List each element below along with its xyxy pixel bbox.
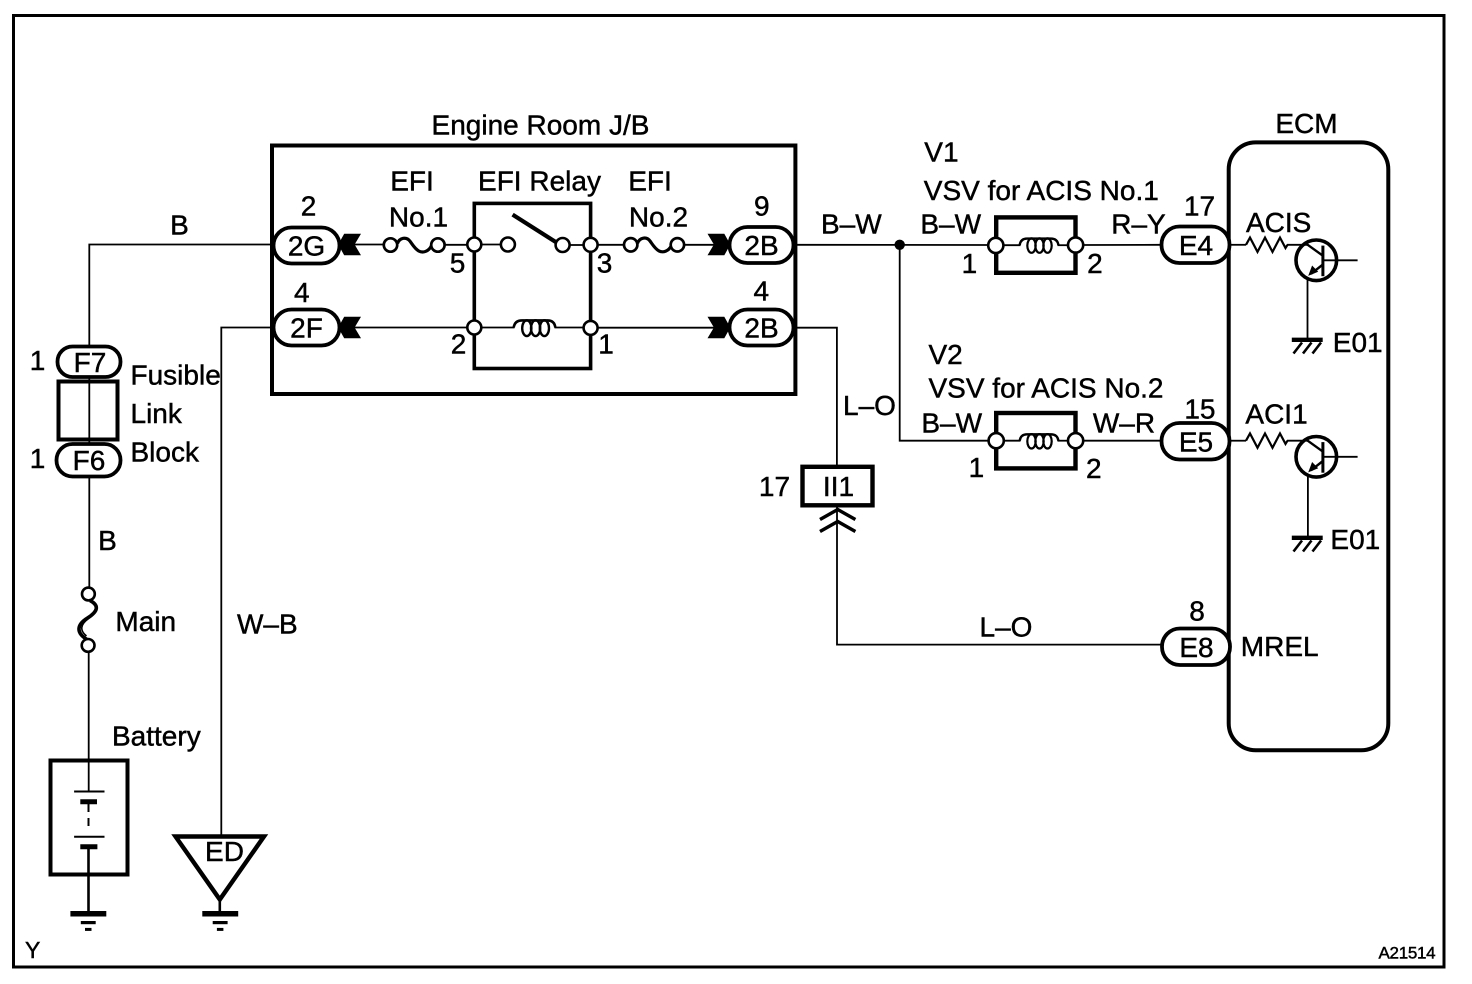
svg-text:EFI Relay: EFI Relay bbox=[478, 166, 601, 197]
svg-text:Engine Room J/B: Engine Room J/B bbox=[432, 110, 650, 141]
node F6 bbox=[57, 444, 121, 477]
wire L-O 2B lower to II1 bbox=[795, 328, 837, 467]
svg-text:ED: ED bbox=[205, 836, 244, 867]
svg-text:2: 2 bbox=[1087, 248, 1103, 279]
svg-text:Main: Main bbox=[115, 606, 176, 637]
svg-text:No.2: No.2 bbox=[629, 202, 688, 233]
node 2F bbox=[274, 310, 340, 346]
transistor Q2 bbox=[1287, 440, 1309, 442]
wire 2F to relay pin 2 bbox=[354, 327, 468, 329]
svg-text:A21514: A21514 bbox=[1379, 944, 1436, 963]
svg-text:EFI: EFI bbox=[390, 166, 434, 197]
VSV V2 pin 1 bbox=[989, 433, 1004, 448]
node E5 bbox=[1162, 423, 1230, 460]
node 2G bbox=[274, 228, 340, 264]
svg-text:B–W: B–W bbox=[921, 408, 982, 439]
svg-text:2G: 2G bbox=[288, 231, 325, 262]
ground below battery bbox=[70, 911, 106, 917]
wire R-Y VSV No.1 to E4 bbox=[1083, 244, 1162, 246]
wire 2G to fuse to relay pin 5 bbox=[354, 244, 385, 246]
svg-text:Y: Y bbox=[25, 937, 40, 963]
wire junction down to VSV No.2 bbox=[900, 245, 990, 441]
arrow into 2B lower bbox=[708, 317, 731, 339]
Engine Room J/B box bbox=[272, 146, 795, 395]
wire emitter to E01 ground bbox=[1307, 279, 1309, 339]
shield chevron 2 bbox=[820, 522, 855, 532]
relay pin 3 bbox=[584, 238, 598, 252]
shield chevron 1 bbox=[820, 510, 855, 520]
wire B from battery branch up to 2G bbox=[89, 245, 270, 346]
ground E01 upper bbox=[1292, 338, 1323, 342]
svg-text:ACI1: ACI1 bbox=[1245, 399, 1307, 430]
wire L-O II1 down to E8 bbox=[837, 507, 1162, 645]
svg-text:2: 2 bbox=[301, 191, 317, 222]
svg-text:1: 1 bbox=[962, 248, 978, 279]
svg-text:W–B: W–B bbox=[237, 609, 298, 640]
battery box bbox=[51, 761, 128, 875]
svg-text:E01: E01 bbox=[1330, 524, 1380, 555]
svg-text:2: 2 bbox=[451, 329, 467, 360]
VSV V1 pin 2 bbox=[1068, 237, 1083, 252]
svg-text:2: 2 bbox=[1086, 453, 1102, 484]
relay coil wires bbox=[481, 327, 515, 329]
svg-text:1: 1 bbox=[598, 329, 614, 360]
ground E01 lower bbox=[1292, 536, 1323, 540]
svg-text:E01: E01 bbox=[1333, 327, 1383, 358]
svg-text:EFI: EFI bbox=[628, 166, 672, 197]
wire relay pin 1 to 2B lower bbox=[598, 327, 715, 329]
node E4 bbox=[1162, 227, 1230, 264]
svg-text:ACIS: ACIS bbox=[1246, 207, 1311, 238]
svg-text:L–O: L–O bbox=[980, 612, 1033, 643]
svg-text:II1: II1 bbox=[823, 471, 854, 502]
wire Main to battery bbox=[88, 652, 90, 791]
arrow into 2F bbox=[338, 317, 361, 339]
svg-text:15: 15 bbox=[1184, 394, 1215, 425]
relay contact left bbox=[501, 238, 515, 252]
relay pin 5 bbox=[467, 238, 481, 252]
svg-text:1: 1 bbox=[30, 345, 46, 376]
wire W-R VSV No.2 to E5 bbox=[1083, 440, 1162, 442]
relay pin 2 bbox=[467, 321, 481, 335]
svg-text:E8: E8 bbox=[1179, 632, 1213, 663]
relay switch blade bbox=[513, 215, 557, 243]
svg-text:B–W: B–W bbox=[821, 209, 882, 240]
node 2B upper bbox=[730, 227, 794, 263]
svg-text:Fusible: Fusible bbox=[131, 360, 221, 391]
svg-text:B: B bbox=[170, 210, 189, 241]
svg-text:3: 3 bbox=[597, 248, 613, 279]
svg-text:1: 1 bbox=[969, 452, 985, 483]
ground below ED bbox=[202, 911, 238, 917]
svg-text:4: 4 bbox=[294, 277, 310, 308]
svg-text:VSV for ACIS No.1: VSV for ACIS No.1 bbox=[924, 175, 1159, 206]
svg-text:F7: F7 bbox=[74, 347, 107, 378]
svg-text:L–O: L–O bbox=[843, 390, 896, 421]
transistor Q1 bbox=[1287, 244, 1309, 246]
VSV V1 coil bbox=[1020, 239, 1059, 245]
wire relay pin 3 to fuse EFI No.2 bbox=[598, 244, 625, 246]
wire B-W 2B to VSV No.1 bbox=[795, 244, 989, 246]
connector II1 box bbox=[803, 467, 873, 506]
wire W-B from 2F down to ED bbox=[221, 328, 273, 837]
svg-text:Block: Block bbox=[131, 437, 200, 468]
svg-text:E4: E4 bbox=[1179, 230, 1213, 261]
VSV V1 pin 1 bbox=[988, 238, 1003, 253]
svg-text:R–Y: R–Y bbox=[1111, 209, 1166, 240]
relay coil bbox=[514, 320, 556, 327]
wire battery to ground bbox=[87, 847, 90, 912]
svg-text:F6: F6 bbox=[73, 445, 106, 476]
svg-text:4: 4 bbox=[754, 276, 770, 307]
svg-text:9: 9 bbox=[754, 191, 770, 222]
relay pin 1 bbox=[584, 321, 598, 335]
svg-text:MREL: MREL bbox=[1241, 631, 1319, 662]
svg-text:2B: 2B bbox=[744, 313, 778, 344]
EFI relay box bbox=[474, 203, 590, 368]
VSV V1 box bbox=[996, 217, 1075, 272]
svg-text:1: 1 bbox=[30, 443, 46, 474]
svg-text:VSV for ACIS No.2: VSV for ACIS No.2 bbox=[929, 373, 1164, 404]
arrow into 2B upper bbox=[708, 234, 731, 256]
relay switch contact wires bbox=[481, 244, 501, 246]
node E8 bbox=[1162, 629, 1230, 666]
ECM box bbox=[1229, 142, 1389, 750]
battery cells bbox=[74, 791, 104, 793]
svg-text:2B: 2B bbox=[744, 230, 778, 261]
svg-text:17: 17 bbox=[759, 471, 790, 502]
node F7 bbox=[58, 347, 121, 378]
svg-text:8: 8 bbox=[1189, 596, 1205, 627]
wire through fusible link block F7 to F6 to Main bbox=[88, 345, 90, 588]
svg-text:5: 5 bbox=[450, 248, 466, 279]
arrow into 2G bbox=[338, 234, 361, 256]
svg-text:Battery: Battery bbox=[112, 721, 201, 752]
VSV V2 pin 2 bbox=[1068, 433, 1083, 448]
resistor at ACI1 bbox=[1230, 440, 1246, 442]
svg-text:17: 17 bbox=[1184, 191, 1215, 222]
fuse EFI No.1 bbox=[384, 238, 397, 251]
svg-text:No.1: No.1 bbox=[389, 202, 448, 233]
fusible link Main bbox=[82, 588, 95, 601]
svg-text:V1: V1 bbox=[924, 137, 958, 168]
svg-text:V2: V2 bbox=[929, 339, 963, 370]
wire emitter to E01 ground lower bbox=[1307, 475, 1309, 536]
svg-text:E5: E5 bbox=[1179, 427, 1213, 458]
svg-text:Link: Link bbox=[131, 398, 183, 429]
fusible link block body bbox=[59, 382, 118, 440]
node 2B lower bbox=[730, 310, 794, 346]
ground triangle ED bbox=[176, 837, 265, 900]
VSV V2 coil bbox=[1020, 434, 1059, 440]
svg-text:W–R: W–R bbox=[1093, 408, 1155, 439]
svg-text:2F: 2F bbox=[290, 313, 323, 344]
junction node bbox=[895, 240, 905, 250]
VSV V2 box bbox=[996, 413, 1075, 468]
svg-text:B–W: B–W bbox=[920, 209, 981, 240]
svg-text:B: B bbox=[98, 525, 117, 556]
fuse EFI No.2 bbox=[624, 238, 637, 251]
resistor at ACIS bbox=[1230, 244, 1246, 246]
relay contact right bbox=[556, 238, 570, 252]
wire ED apex to ground bbox=[219, 899, 222, 912]
svg-text:ECM: ECM bbox=[1275, 108, 1337, 139]
wire fuse No.2 to 2B bbox=[684, 244, 714, 246]
